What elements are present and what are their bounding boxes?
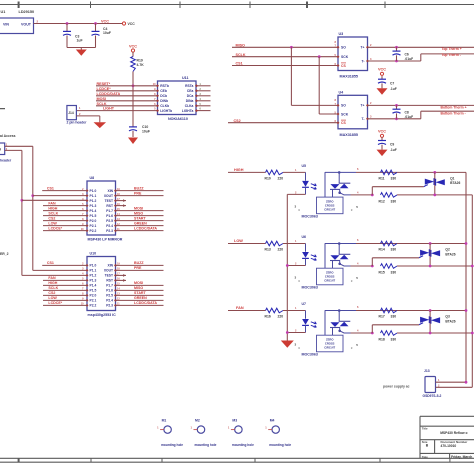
svg-text:×: × <box>351 208 353 212</box>
svg-text:RSTa: RSTa <box>185 84 193 88</box>
svg-text:R11: R11 <box>379 176 385 180</box>
svg-text:P1.1: P1.1 <box>90 194 97 198</box>
svg-text:FAN: FAN <box>236 306 244 310</box>
svg-text:SO: SO <box>341 104 346 108</box>
svg-text:VCC: VCC <box>378 130 386 134</box>
svg-text:U11: U11 <box>182 76 189 80</box>
svg-text:DCb: DCb <box>160 94 167 98</box>
svg-text:SCLK: SCLK <box>48 286 58 290</box>
svg-text:T+: T+ <box>360 46 364 50</box>
svg-text:P1.5: P1.5 <box>90 214 97 218</box>
svg-text:START: START <box>134 291 147 295</box>
svg-text:T-: T- <box>361 117 364 121</box>
svg-text:mounting hole: mounting hole <box>161 443 183 447</box>
svg-text:P2.4: P2.4 <box>106 224 113 228</box>
svg-text:T+: T+ <box>360 104 364 108</box>
svg-text:CIRCUIT: CIRCUIT <box>324 207 335 211</box>
svg-text:CROSS: CROSS <box>325 203 335 207</box>
svg-text:LIGHTa: LIGHTa <box>182 109 194 113</box>
svg-text:LCDDC/DATA: LCDDC/DATA <box>134 226 157 230</box>
svg-text:M1: M1 <box>162 418 167 422</box>
svg-text:SCLK: SCLK <box>48 211 58 215</box>
svg-text:.1uF: .1uF <box>390 148 397 152</box>
svg-text:GREEN: GREEN <box>134 296 147 300</box>
svg-text:VOUT: VOUT <box>21 22 32 26</box>
svg-text:P1.7: P1.7 <box>106 209 113 213</box>
svg-text:HIGH: HIGH <box>48 206 57 210</box>
svg-text:.01uF: .01uF <box>405 57 414 61</box>
svg-text:470-10010: 470-10010 <box>441 444 457 448</box>
svg-text:SCK: SCK <box>341 112 349 116</box>
svg-text:ZERO: ZERO <box>326 199 333 203</box>
svg-text:MOC3063: MOC3063 <box>302 286 318 290</box>
svg-text:HIGH: HIGH <box>234 168 244 172</box>
svg-text:CROSS: CROSS <box>325 275 335 279</box>
svg-text:×: × <box>298 346 300 350</box>
svg-text:LCDDC/DATA: LCDDC/DATA <box>97 92 121 96</box>
svg-text:R10: R10 <box>265 177 271 181</box>
svg-text:BTA26: BTA26 <box>450 181 460 185</box>
svg-text:MOSI: MOSI <box>134 281 143 285</box>
svg-text:VCC: VCC <box>128 22 136 26</box>
svg-text:P1.6: P1.6 <box>106 289 113 293</box>
svg-text:FAN: FAN <box>48 276 56 280</box>
svg-text:U7: U7 <box>302 302 307 306</box>
svg-text:Top Therm +: Top Therm + <box>442 47 462 51</box>
svg-text:220: 220 <box>278 177 284 181</box>
svg-text:330: 330 <box>391 176 397 180</box>
svg-text:R18: R18 <box>379 338 385 342</box>
svg-text:SCK: SCK <box>341 55 349 59</box>
svg-text:P1.2: P1.2 <box>90 199 97 203</box>
svg-text:×: × <box>351 279 353 283</box>
svg-text:LD29150: LD29150 <box>19 10 35 14</box>
svg-text:RESET*: RESET* <box>97 82 111 86</box>
svg-text:HIGH: HIGH <box>48 281 57 285</box>
svg-text:MISO: MISO <box>134 286 143 290</box>
svg-text:ER_2: ER_2 <box>0 252 9 256</box>
svg-text:M4: M4 <box>270 418 275 422</box>
svg-text:TEST: TEST <box>105 199 113 203</box>
svg-text:CEb: CEb <box>160 89 167 93</box>
svg-text:LOW: LOW <box>234 239 243 243</box>
svg-text:LIGHTb: LIGHTb <box>160 109 172 113</box>
svg-text:PRE: PRE <box>134 191 142 195</box>
svg-text:P2.5: P2.5 <box>106 294 113 298</box>
svg-text:CLKb: CLKb <box>160 104 169 108</box>
svg-text:C10: C10 <box>142 125 148 129</box>
svg-text:P1.6: P1.6 <box>106 214 113 218</box>
svg-text:R14: R14 <box>379 248 385 252</box>
svg-text:CIRCUIT: CIRCUIT <box>324 279 335 283</box>
svg-text:RST: RST <box>106 279 113 283</box>
svg-text:P1.0: P1.0 <box>90 189 97 193</box>
svg-text:MOSI: MOSI <box>97 97 106 101</box>
svg-text:U10: U10 <box>90 252 97 256</box>
svg-text:MSP430 Reflow o: MSP430 Reflow o <box>440 431 467 435</box>
svg-text:×: × <box>298 208 300 212</box>
svg-text:CS1: CS1 <box>47 186 54 190</box>
svg-text:P2.4: P2.4 <box>106 299 113 303</box>
svg-text:C6: C6 <box>405 52 409 56</box>
svg-text:GSD97S-5-2: GSD97S-5-2 <box>423 394 442 398</box>
svg-text:SCLK: SCLK <box>97 102 107 106</box>
svg-text:CS1: CS1 <box>47 261 54 265</box>
svg-text:XOUT: XOUT <box>104 269 113 273</box>
svg-text:CS2: CS2 <box>48 291 55 295</box>
svg-text:U6: U6 <box>302 235 307 239</box>
svg-text:RSTb: RSTb <box>160 84 169 88</box>
svg-text:330: 330 <box>391 338 397 342</box>
svg-text:R19: R19 <box>137 58 143 62</box>
svg-text:P2.0: P2.0 <box>90 294 97 298</box>
svg-text:VCC: VCC <box>378 68 386 72</box>
svg-text:VCC: VCC <box>101 19 109 23</box>
svg-text:CIRCUIT: CIRCUIT <box>324 346 335 350</box>
svg-text:10uF: 10uF <box>142 130 150 134</box>
svg-text:P2.2: P2.2 <box>90 229 97 233</box>
svg-text:330: 330 <box>391 271 397 275</box>
svg-text:P2.2: P2.2 <box>90 304 97 308</box>
svg-text:P1.5: P1.5 <box>90 289 97 293</box>
svg-text:U5: U5 <box>302 164 307 168</box>
svg-text:.1uF: .1uF <box>390 87 397 91</box>
svg-text:al Access: al Access <box>0 134 16 138</box>
svg-text:Q1: Q1 <box>450 176 455 180</box>
svg-text:XIN: XIN <box>108 264 114 268</box>
svg-text:LIGHT: LIGHT <box>103 107 115 111</box>
svg-text:Bottom Therm +: Bottom Therm + <box>441 105 467 109</box>
svg-text:R17: R17 <box>379 315 385 319</box>
svg-text:msp430g2553 IC: msp430g2553 IC <box>88 313 117 317</box>
svg-text:LCDCE*: LCDCE* <box>97 87 112 91</box>
svg-text:P2.0: P2.0 <box>90 219 97 223</box>
svg-text:GREEN: GREEN <box>134 221 147 225</box>
svg-text:LOW: LOW <box>48 296 57 300</box>
svg-text:XOUT: XOUT <box>104 194 113 198</box>
svg-text:LCDDC/DATA: LCDDC/DATA <box>134 301 157 305</box>
svg-text:P2.3: P2.3 <box>106 304 113 308</box>
svg-text:LCDCE*: LCDCE* <box>48 301 62 305</box>
svg-text:VIN: VIN <box>3 22 9 26</box>
svg-text:330: 330 <box>391 248 397 252</box>
svg-text:XIN: XIN <box>108 189 114 193</box>
svg-text:ZERO: ZERO <box>326 271 333 275</box>
svg-text:R15: R15 <box>379 271 385 275</box>
svg-text:R12: R12 <box>379 199 385 203</box>
svg-text:C7: C7 <box>390 81 394 85</box>
svg-text:P1.2: P1.2 <box>90 274 97 278</box>
svg-text:FAN: FAN <box>48 201 56 205</box>
svg-text:mounting hole: mounting hole <box>269 443 291 447</box>
svg-text:Top Therm -: Top Therm - <box>442 53 461 57</box>
svg-text:CS: CS <box>341 64 346 68</box>
svg-text:P1.4: P1.4 <box>90 284 97 288</box>
svg-text:P1.3: P1.3 <box>90 204 97 208</box>
svg-text:BUZZ: BUZZ <box>134 186 144 190</box>
svg-text:P1.7: P1.7 <box>106 284 113 288</box>
svg-text:P1.4: P1.4 <box>90 209 97 213</box>
svg-text:VCC: VCC <box>129 44 137 48</box>
svg-text:BTA26: BTA26 <box>445 252 455 256</box>
svg-text:CEa: CEa <box>187 89 194 93</box>
svg-text:J13: J13 <box>424 369 430 373</box>
svg-text:power supply ac: power supply ac <box>383 385 410 389</box>
svg-text:P1.1: P1.1 <box>90 269 97 273</box>
svg-text:START: START <box>134 216 147 220</box>
svg-text:DCa: DCa <box>187 94 194 98</box>
svg-text:P2.5: P2.5 <box>106 219 113 223</box>
svg-text:2 pin header: 2 pin header <box>67 120 88 124</box>
svg-text:LCDCE*: LCDCE* <box>48 226 62 230</box>
svg-text:SO: SO <box>341 46 346 50</box>
svg-text:BUZZ: BUZZ <box>134 261 144 265</box>
svg-text:BTA26: BTA26 <box>445 319 455 323</box>
svg-text:×: × <box>298 279 300 283</box>
svg-text:1uF: 1uF <box>77 39 83 43</box>
svg-text:Friday, March: Friday, March <box>451 455 472 459</box>
svg-text:DINa: DINa <box>186 99 194 103</box>
svg-text:U3: U3 <box>339 32 344 36</box>
svg-text:4.7K: 4.7K <box>137 63 145 67</box>
svg-text:Bottom Therm -: Bottom Therm - <box>441 111 466 115</box>
svg-text:MSP430 LP MIRROR: MSP430 LP MIRROR <box>88 238 123 242</box>
svg-text:MAX31855: MAX31855 <box>340 75 358 79</box>
svg-text:T-: T- <box>361 59 364 63</box>
svg-text:R13: R13 <box>265 248 271 252</box>
svg-text:pin header: pin header <box>0 159 12 163</box>
svg-text:Date: Date <box>422 455 429 459</box>
svg-text:RST: RST <box>106 204 113 208</box>
svg-text:CS: CS <box>341 121 346 125</box>
svg-text:×: × <box>351 346 353 350</box>
svg-text:P2.1: P2.1 <box>90 224 97 228</box>
svg-text:P1.3: P1.3 <box>90 279 97 283</box>
svg-text:Q3: Q3 <box>445 315 450 319</box>
svg-text:PRE: PRE <box>134 266 142 270</box>
svg-text:R16: R16 <box>265 315 271 319</box>
svg-text:MISO: MISO <box>134 211 143 215</box>
svg-text:J14: J14 <box>68 111 74 115</box>
svg-text:M3: M3 <box>232 418 237 422</box>
svg-text:.01uF: .01uF <box>405 115 414 119</box>
svg-text:MOSI: MOSI <box>134 206 143 210</box>
svg-text:CS2: CS2 <box>48 216 55 220</box>
svg-text:C8: C8 <box>405 111 409 115</box>
svg-text:CLKa: CLKa <box>185 104 194 108</box>
svg-text:MOC3063: MOC3063 <box>302 353 318 357</box>
svg-text:330: 330 <box>391 315 397 319</box>
svg-text:MOC3063: MOC3063 <box>302 214 318 218</box>
svg-text:mounting hole: mounting hole <box>195 443 217 447</box>
svg-text:P1.0: P1.0 <box>90 264 97 268</box>
svg-text:330: 330 <box>391 199 397 203</box>
svg-text:NOKIA6110: NOKIA6110 <box>168 117 188 121</box>
svg-text:LOW: LOW <box>48 221 57 225</box>
svg-text:Q2: Q2 <box>445 248 450 252</box>
svg-text:10uF: 10uF <box>103 31 111 35</box>
svg-text:DINb: DINb <box>160 99 168 103</box>
svg-text:C9: C9 <box>390 143 394 147</box>
svg-text:TEST: TEST <box>105 274 113 278</box>
svg-text:220: 220 <box>278 315 284 319</box>
svg-text:220: 220 <box>278 248 284 252</box>
svg-text:ZERO: ZERO <box>326 338 333 342</box>
svg-text:MAX31855: MAX31855 <box>340 133 358 137</box>
svg-text:P2.3: P2.3 <box>106 229 113 233</box>
svg-text:U8: U8 <box>90 176 95 180</box>
svg-text:CROSS: CROSS <box>325 342 335 346</box>
svg-text:M2: M2 <box>195 418 200 422</box>
svg-text:U1: U1 <box>1 10 6 14</box>
svg-text:mounting hole: mounting hole <box>232 443 254 447</box>
svg-text:P2.1: P2.1 <box>90 299 97 303</box>
svg-text:Title: Title <box>422 427 428 431</box>
